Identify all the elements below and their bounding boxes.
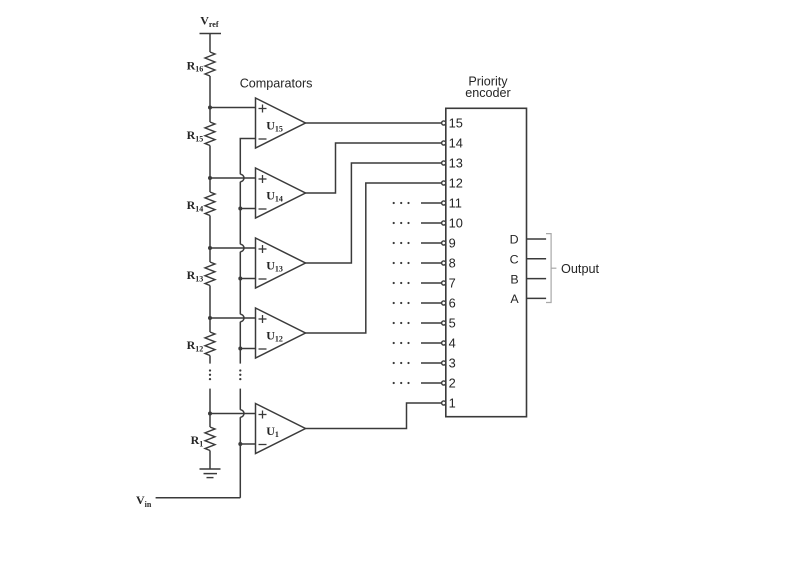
svg-text:8: 8 [449,256,456,271]
svg-text:C: C [510,253,519,267]
svg-text:15: 15 [449,116,463,131]
svg-text:D: D [510,233,519,247]
svg-text:encoder: encoder [465,86,511,100]
svg-text:2: 2 [449,376,456,391]
svg-text:12: 12 [449,176,463,191]
svg-text:B: B [510,272,518,286]
svg-text:6: 6 [449,296,456,311]
svg-text:3: 3 [449,356,456,371]
svg-text:Output: Output [561,262,600,276]
svg-text:5: 5 [449,316,456,331]
svg-text:4: 4 [449,336,456,351]
svg-text:13: 13 [449,156,463,171]
svg-text:9: 9 [449,236,456,251]
svg-text:11: 11 [449,196,462,211]
svg-text:Comparators: Comparators [240,76,313,90]
svg-text:7: 7 [449,276,456,291]
svg-text:1: 1 [449,396,456,411]
svg-text:14: 14 [449,136,463,151]
svg-text:10: 10 [449,216,463,231]
svg-text:A: A [510,292,519,306]
